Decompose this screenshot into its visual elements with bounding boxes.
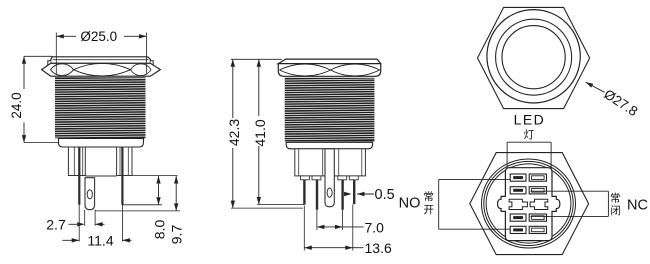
dimension 9.7: [95, 176, 185, 245]
dimension D25.0: [56, 29, 146, 74]
svg-text:7.0: 7.0: [365, 219, 385, 235]
dimension 8.0: [123, 176, 178, 240]
svg-text:13.6: 13.6: [365, 240, 392, 256]
view1 threaded body: [55, 77, 146, 138]
dimension 2.7: [46, 210, 104, 233]
view4 circle 1: [482, 159, 576, 248]
view1 right pin: [121, 147, 123, 205]
view4 circle 2: [484, 161, 573, 245]
view2 collar: [286, 142, 372, 149]
svg-text:9.7: 9.7: [169, 225, 185, 245]
view2 lamp tab: [325, 149, 334, 207]
view2 pin A: [303, 180, 305, 205]
label NC: [627, 197, 648, 213]
view1 right housing: [117, 147, 132, 176]
view4 pin row4 left: [510, 214, 526, 221]
view3 hex nut outline: [478, 7, 590, 108]
view2 threaded body: [285, 78, 375, 142]
view2 flange facets: [280, 64, 380, 76]
svg-text:闭: 闭: [610, 204, 621, 217]
label NO chinese: [423, 190, 434, 216]
svg-text:Ø27.8: Ø27.8: [601, 86, 640, 119]
label lamp char: [524, 129, 535, 141]
view4 hex nut outline: [470, 153, 589, 255]
svg-text:11.4: 11.4: [87, 232, 113, 248]
view3 button circle: [502, 26, 565, 89]
dimension D27.8 leader: [586, 82, 641, 119]
label LED: [514, 112, 545, 128]
view2 button cap: [278, 59, 380, 64]
label NO: [399, 196, 421, 212]
view2 terminal feet: [301, 176, 359, 180]
svg-text:常: 常: [610, 192, 621, 205]
svg-text:2.7: 2.7: [46, 217, 66, 233]
dimension 41.0: [252, 59, 304, 204]
callout NC box: [531, 191, 609, 216]
view1 button cap: [48, 57, 153, 65]
svg-text:8.0: 8.0: [152, 220, 168, 240]
view1 lamp tab: [85, 178, 95, 210]
view3 outer circle: [487, 10, 580, 103]
view2 housing: [295, 149, 366, 176]
dimension 11.4: [62, 204, 131, 248]
view2 flange: [278, 64, 380, 77]
label NC chinese: [610, 192, 621, 218]
view1 flange facets: [51, 63, 152, 76]
view2 pin D: [353, 180, 355, 204]
view4 pin row5 right: [529, 226, 546, 233]
svg-text:NC: NC: [627, 197, 648, 213]
svg-text:Ø25.0: Ø25.0: [80, 29, 117, 44]
svg-text:24.0: 24.0: [9, 92, 24, 118]
view1 left housing: [68, 147, 85, 176]
view4 pin row1 right: [529, 174, 546, 181]
view4 connector block: [498, 168, 560, 241]
view1 collar: [59, 138, 144, 147]
dimension 42.3: [226, 59, 303, 208]
svg-text:41.0: 41.0: [252, 119, 268, 146]
callout NO box: [439, 179, 511, 229]
view4 key left: [509, 199, 527, 209]
view3 bezel circle: [496, 19, 572, 95]
view4 pin row2 right (NC): [529, 187, 546, 194]
dimension 13.6: [304, 205, 392, 257]
svg-text:开: 开: [424, 204, 435, 216]
view2 pin C: [341, 180, 343, 210]
view2 pin B: [316, 180, 318, 210]
view4 pin row2 left: [510, 187, 526, 194]
svg-text:LED: LED: [514, 112, 545, 128]
svg-text:0.5: 0.5: [375, 187, 395, 203]
dimension 7.0: [317, 210, 384, 235]
svg-text:42.3: 42.3: [226, 119, 242, 146]
svg-text:灯: 灯: [524, 129, 535, 141]
svg-text:常: 常: [423, 190, 434, 203]
view4 key right: [530, 199, 548, 209]
view1 left pin: [78, 147, 80, 205]
view1 base line: [85, 175, 116, 177]
callout lamp box: [507, 142, 551, 168]
view1 hex flange outline: [42, 63, 161, 76]
dimension 24.0: [9, 56, 58, 142]
svg-text:NO: NO: [399, 196, 421, 212]
dimension 0.5: [344, 187, 395, 203]
view4 pin row5 left (NO): [510, 226, 526, 233]
view4 pin row1 left (NO): [510, 174, 526, 181]
view4 circle 3: [486, 164, 571, 243]
view4 pin row4 right (NC): [529, 214, 546, 221]
